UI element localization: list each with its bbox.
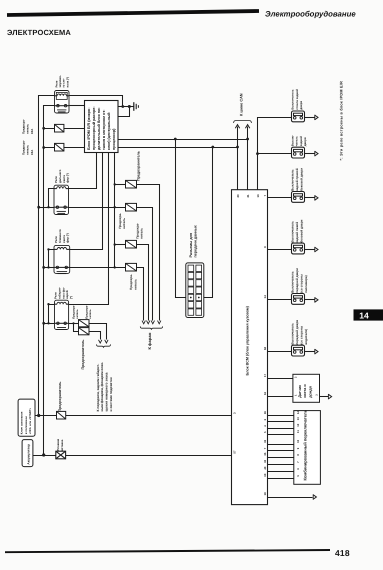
svg-text:и системе подсветки: и системе подсветки — [109, 377, 113, 411]
wire: CAN branch down to data connector (right) — [204, 148, 213, 298]
svg-text:нитель: нитель — [76, 309, 79, 319]
svg-text:12: 12 — [297, 423, 300, 426]
wire: BCM pin 32 to comb switch pin 7 — [268, 464, 294, 466]
wire: S2 to ground arrow — [305, 153, 315, 155]
wire: BCM ground — [268, 497, 313, 499]
wire: CAN vertical to bus arrow 1 — [237, 127, 239, 190]
wire: K2 contact to bus — [39, 207, 55, 209]
wire: BCM pin 33 to comb switch pin 10 — [268, 444, 294, 446]
wire: CAN high from IPDM — [119, 139, 248, 141]
fuse F9 (ignition) — [57, 411, 66, 419]
wire: K4 coil-contact link — [49, 305, 55, 324]
svg-text:Выключатель: Выключатель — [290, 89, 294, 109]
svg-text:тания в моторном от-: тания в моторном от- — [102, 109, 106, 150]
wire: ignition feed to BCM pin 3 — [36, 415, 232, 417]
svg-text:62: 62 — [263, 346, 267, 350]
wire: IPDM second pin ground loop — [119, 107, 130, 117]
wire: BCM pin 36 to comb switch pin 14 — [268, 415, 294, 417]
fuse F2 (15A) — [55, 143, 64, 151]
block BCM — [232, 190, 268, 505]
junction: ground node dots — [121, 105, 124, 108]
wire: BCM to switch S6 — [268, 351, 292, 353]
svg-text:*: Эти реле встроены в блок IP: *: Эти реле встроены в блок IPDM E/R — [340, 81, 344, 161]
wire: BCM pin 35 to comb switch pin 8 — [268, 457, 294, 459]
source: battery box — [22, 440, 33, 467]
svg-text:нитель: нитель — [122, 218, 126, 229]
wire: horn relay contact into IPDM — [70, 105, 85, 107]
svg-text:нитель: нитель — [133, 279, 137, 290]
wire: CAN vertical to bus arrow 2 — [247, 127, 249, 190]
wire: K4 contact to bus — [44, 323, 55, 325]
ground symbol — [133, 102, 135, 111]
svg-text:418: 418 — [335, 548, 350, 558]
wire: fuse F4 out to headlamp — [137, 208, 153, 321]
tab 14 — [354, 309, 383, 320]
brace under lamp arrows — [97, 344, 111, 347]
svg-text:передачи данных: передачи данных — [194, 224, 198, 257]
wire: fuse F2 feed — [44, 147, 85, 149]
wire: BCM to sensor pin a — [268, 378, 293, 380]
header bar — [7, 11, 259, 15]
wire: CAN low from IPDM — [119, 147, 238, 149]
wire: BCM pin 40 to comb switch pin 6 — [268, 471, 294, 473]
wire: BCM pin 60 to comb switch pin 5 — [268, 478, 294, 480]
svg-text:процессор): процессор) — [112, 128, 116, 150]
wire: S1 to ground arrow — [305, 117, 315, 119]
svg-text:Предохранитель: Предохранитель — [58, 381, 62, 412]
switch S6 (передней двери водителя) — [292, 345, 305, 356]
svg-text:боковой двери: боковой двери — [299, 168, 303, 191]
wire: CAN branch down to data connector (left) — [176, 140, 187, 298]
svg-text:(со стороны: (со стороны — [299, 274, 303, 293]
arrow sensor output — [328, 394, 331, 399]
svg-text:10А: 10А — [30, 128, 34, 134]
wire: fuse F1 feed — [44, 128, 85, 130]
svg-text:14: 14 — [359, 310, 369, 320]
arrow S1 — [315, 115, 318, 120]
fuse F4 — [114, 206, 116, 208]
svg-text:в положении: в положении — [24, 416, 28, 434]
relay K1 (Реле звукового сигнала) — [55, 91, 70, 114]
wire: branch to fuse H — [74, 324, 79, 332]
svg-text:света и: света и — [303, 384, 307, 398]
svg-text:боковой двери: боковой двери — [299, 219, 303, 242]
svg-text:нитель: нитель — [89, 309, 92, 319]
svg-text:14: 14 — [263, 295, 267, 299]
svg-text:Предохранитель: Предохранитель — [137, 150, 141, 181]
svg-text:ным фонарям, фонарям осве-: ным фонарям, фонарям осве- — [100, 362, 104, 412]
wire: battery bus (left vertical bus 2) — [44, 106, 56, 456]
wire: S6 to ground arrow — [305, 351, 315, 353]
svg-text:Электрооборудование: Электрооборудование — [265, 10, 356, 19]
wire: rear window switch riser — [258, 118, 292, 190]
wire: battery feed to BCM pin 57 — [33, 455, 232, 457]
arrow S6 — [315, 349, 318, 354]
wire: K3 contact to fuse F6 — [70, 267, 126, 269]
switch S4 (задней левой боковой двери) — [292, 243, 305, 254]
svg-text:57: 57 — [232, 450, 236, 454]
svg-text:Комбинированный переключатель: Комбинированный переключатель — [302, 409, 307, 480]
svg-text:33: 33 — [264, 439, 267, 442]
svg-text:водителя): водителя) — [304, 329, 308, 345]
arrow: CAN bus up 1 — [235, 125, 239, 129]
svg-text:К фарам: К фарам — [147, 333, 152, 350]
relay K3 (Реле ближнего света фар) — [54, 245, 70, 273]
svg-text:нала (*): нала (*) — [65, 77, 69, 88]
wire: fuse F3 out to headlamp — [137, 185, 160, 321]
svg-text:фар (*): фар (*) — [66, 233, 70, 243]
wire: fuse F6 out to headlamp — [137, 268, 144, 321]
svg-text:Разъемы для: Разъемы для — [189, 233, 193, 258]
wire: horn relay coil to ground loop over IPDM — [70, 96, 123, 107]
svg-text:задней левой: задней левой — [295, 222, 299, 243]
fusible link — [56, 451, 66, 459]
svg-text:Датчик: Датчик — [298, 385, 302, 398]
wire: S4 to ground arrow — [305, 249, 315, 251]
svg-text:вставка: вставка — [60, 439, 64, 451]
brace under headlamp arrows — [140, 326, 162, 329]
arrow S3 — [315, 196, 318, 201]
svg-text:«ON» или «START»: «ON» или «START» — [28, 407, 32, 434]
wire: BCM pin 5 to comb switch pin 11 — [268, 434, 294, 436]
wire: K2 coil to IPDM pin — [69, 153, 97, 189]
svg-text:задней правой: задней правой — [295, 168, 299, 191]
fuse F5 — [115, 244, 126, 246]
switch S3 (задней правой боковой двери) — [292, 192, 305, 203]
svg-text:Выключатель: Выключатель — [290, 221, 294, 243]
svg-text:Выключатель: Выключатель — [290, 323, 294, 345]
wire: S3 to ground arrow — [305, 197, 315, 199]
svg-text:нитель: нитель — [140, 228, 144, 239]
wire: BCM pin 4 to comb switch pin 12 — [268, 428, 294, 430]
wire: BCM to switch S4 — [268, 249, 292, 251]
wire: fuse F7 output to lamps — [89, 324, 107, 340]
wire: BCM pin 6 to comb switch pin 13 — [268, 421, 294, 423]
svg-text:Выключатель: Выключатель — [290, 271, 294, 293]
svg-text:36: 36 — [264, 411, 267, 414]
wire: ignition bus (left vertical bus 1) — [39, 96, 56, 416]
svg-text:13: 13 — [297, 417, 300, 420]
svg-text:дождя: дождя — [308, 386, 312, 398]
svg-text:60: 60 — [264, 473, 267, 476]
wire: K3 contact to bus — [44, 267, 55, 269]
svg-text:13: 13 — [256, 194, 260, 198]
svg-text:Выключатель: Выключатель — [290, 169, 294, 191]
svg-text:Ключ зажигания: Ключ зажигания — [19, 411, 23, 434]
wire: K3 coil-contact link — [49, 250, 55, 268]
svg-text:передней двери: передней двери — [295, 268, 299, 293]
wire: S5 to ground arrow — [305, 299, 315, 301]
svg-text:ЭЛЕКТРОСХЕМА: ЭЛЕКТРОСХЕМА — [7, 28, 71, 37]
wire: BCM to switch S3 — [268, 197, 292, 199]
arrow BCM ground — [313, 495, 316, 500]
svg-text:18: 18 — [263, 492, 267, 496]
wire: fuse F8 output to lamps — [89, 332, 101, 340]
wire: K4 coil to IPDM pin — [69, 153, 109, 305]
svg-text:щения номерного знака: щения номерного знака — [105, 372, 109, 411]
relay K4 (Реле габаритных фонарей) — [55, 300, 69, 329]
switch S2 (задней двери) — [292, 147, 305, 158]
switch S1 (стекла задней двери) — [292, 111, 305, 122]
svg-text:Блок IPDM E/R (микро-: Блок IPDM E/R (микро- — [87, 107, 91, 150]
footer rule — [5, 550, 330, 552]
svg-text:35: 35 — [264, 452, 267, 455]
svg-text:20: 20 — [236, 194, 240, 198]
block IPDM E/R — [85, 101, 119, 153]
connector: разъемы для передачи данных — [186, 263, 204, 318]
svg-text:Предохранитель: Предохранитель — [81, 339, 85, 370]
svg-text:секе) (центральный: секе) (центральный — [107, 112, 111, 150]
switch S5 (передней двери пассажира) — [292, 294, 305, 305]
svg-text:16: 16 — [263, 391, 267, 395]
arrow S5 — [315, 298, 318, 303]
fuse F3 — [115, 184, 126, 186]
svg-text:(со стороны: (со стороны — [299, 325, 303, 344]
bracket over CAN arrows — [234, 121, 252, 123]
wire: BCM to sensor pin b — [268, 396, 293, 398]
arrow: to position lamps (right) — [105, 340, 108, 343]
fuse F6 — [114, 266, 116, 268]
fuse F1 (10A) — [55, 124, 64, 132]
arrow: CAN bus up 2 — [245, 125, 249, 129]
wire: K2 contact to fuse F4 — [69, 207, 126, 209]
svg-text:14: 14 — [297, 411, 300, 414]
svg-text:двери: двери — [303, 137, 307, 146]
svg-text:40: 40 — [264, 466, 267, 469]
arrow: to position lamps (left) — [99, 340, 102, 343]
svg-text:передней двери: передней двери — [295, 320, 299, 345]
wire: BCM pin 7 to comb switch pin 9 — [268, 450, 294, 452]
block combination switch — [294, 411, 321, 485]
wire: S2 tap — [258, 153, 292, 155]
arrow S4 — [315, 247, 318, 252]
arrows: к фарам bundle — [142, 321, 145, 324]
wire: K2 coil-contact link — [49, 189, 55, 208]
wire: IPDM pin to fuse bus — [114, 153, 116, 268]
svg-text:двери: двери — [299, 101, 303, 110]
svg-text:10: 10 — [297, 439, 300, 442]
sensor (Датчик света и дождя) — [293, 374, 320, 402]
svg-text:32: 32 — [264, 459, 267, 462]
svg-text:17: 17 — [263, 373, 267, 377]
relay K2 (Реле дальнего света фар) — [54, 185, 69, 214]
svg-text:21: 21 — [246, 194, 250, 198]
svg-text:(*): (*) — [69, 296, 73, 299]
svg-text:К шине CAN: К шине CAN — [240, 93, 244, 116]
svg-text:пассажира): пассажира) — [304, 275, 308, 293]
fuse F7 — [79, 320, 90, 327]
wire: fuse F5 out to headlamp — [137, 245, 149, 321]
fuse F8 — [79, 328, 90, 335]
source: ignition key box — [18, 399, 35, 436]
wire: K4 contact to fuses G/H — [69, 323, 79, 325]
wire: BCM to switch S5 — [268, 299, 292, 301]
svg-text:стекла задней: стекла задней — [295, 89, 299, 110]
arrow S2 — [315, 151, 318, 156]
svg-text:К передним, задним габарит-: К передним, задним габарит- — [96, 364, 100, 412]
wire: IPDM pin to ground — [119, 106, 134, 108]
svg-text:Аккумулятор: Аккумулятор — [26, 444, 30, 465]
svg-text:фар (*): фар (*) — [66, 173, 70, 183]
svg-text:делительный блок пи-: делительный блок пи- — [97, 107, 101, 150]
svg-text:процессорный распре-: процессорный распре- — [92, 106, 96, 150]
svg-text:Блок BCM (блок управления кузо: Блок BCM (блок управления кузовом) — [245, 305, 249, 375]
svg-text:15А: 15А — [30, 149, 34, 155]
wire: sensor output — [320, 396, 329, 398]
wire: K3 coil to IPDM pin — [70, 153, 103, 250]
